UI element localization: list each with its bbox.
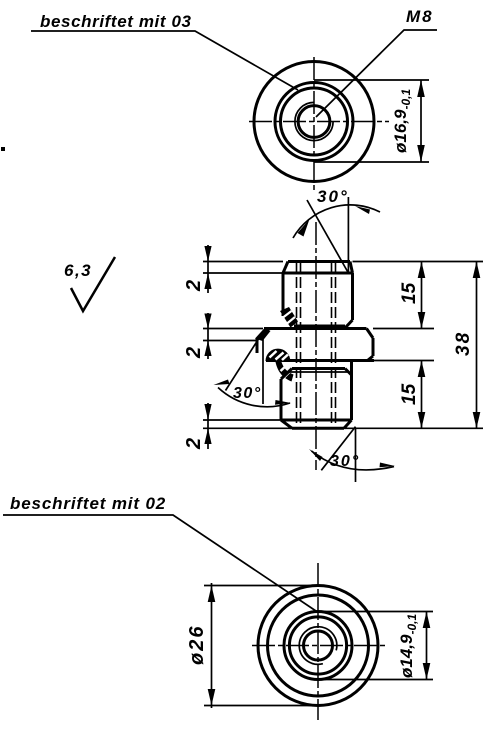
collar top-left chamfer (thick) <box>255 328 271 342</box>
top view horizontal centerline <box>249 121 389 123</box>
blob below collar left: dark cap <box>266 349 291 361</box>
phi16,9 arrow up <box>417 80 425 97</box>
angle 30 bottom arc arrow right <box>380 463 396 468</box>
leader M8 line <box>316 30 437 117</box>
angle 30 bottom arc <box>312 451 395 470</box>
blob lower tail <box>276 362 294 382</box>
bottom section right edge <box>350 375 353 420</box>
bottom view chamfer circle <box>289 617 346 674</box>
extension line top face left <box>203 261 283 263</box>
angle 30 top extension vertical <box>347 197 349 273</box>
phi26 extension line top <box>204 585 318 587</box>
bottom section top-right mini chamfer <box>345 369 352 376</box>
hidden line core right <box>331 262 333 428</box>
svg-text:M8: M8 <box>406 7 434 26</box>
extension line collar top right <box>373 328 434 330</box>
dim 2 no.1 arrows <box>204 246 211 262</box>
bottom section chamfer line bottom <box>281 419 352 422</box>
phi16,9 dimension line <box>420 80 422 162</box>
bottom section bottom face <box>292 427 344 430</box>
extension line collar top left <box>203 328 263 330</box>
angle 30 middle arc arrow left <box>214 380 230 386</box>
blob cap white slashes <box>270 351 289 360</box>
hidden line thread left <box>296 262 298 428</box>
svg-text:30°: 30° <box>317 187 349 206</box>
angle 30 middle vertical line <box>262 332 264 404</box>
top view thread arc M8 (3/4 circle) <box>295 102 333 140</box>
collar left edge <box>256 339 259 354</box>
collar bottom-right chamfer <box>368 356 374 361</box>
angle 30 middle diagonal <box>226 332 264 391</box>
svg-text:38: 38 <box>453 331 474 356</box>
phi26 arrows <box>208 586 216 603</box>
phi14,9 arrows <box>423 612 431 629</box>
top section top-left chamfer <box>283 262 288 274</box>
top section bottom-right chamfer <box>345 320 353 328</box>
extension line collar bottom right <box>374 360 434 362</box>
hidden line thread right <box>335 262 337 428</box>
leader beschriftet mit 03 line <box>31 31 298 90</box>
surface finish checkmark <box>71 257 115 311</box>
top section left edge <box>282 273 285 316</box>
dim 38 arrows <box>473 262 481 279</box>
angle 30 bottom diagonal <box>321 427 355 471</box>
angle 30 middle arc <box>218 388 290 407</box>
phi14,9 dimension line <box>426 612 428 680</box>
dim 38 line <box>476 262 478 429</box>
svg-text:ø26: ø26 <box>186 625 208 665</box>
extension line bottom chamfer left <box>203 419 281 421</box>
bottom view vertical centerline <box>317 563 319 720</box>
top section bottom-left chamfer (thick, thread runout) <box>280 307 298 328</box>
collar top-right chamfer <box>367 329 374 339</box>
svg-text:beschriftet mit 02: beschriftet mit 02 <box>10 494 166 513</box>
long bottom extension line <box>203 427 483 429</box>
svg-text:6,3: 6,3 <box>64 261 92 280</box>
collar right edge <box>372 338 375 356</box>
side view centerline <box>315 222 317 470</box>
svg-text:2: 2 <box>183 438 205 450</box>
hidden line core left <box>300 262 302 428</box>
collar bottom face <box>266 359 374 362</box>
runout white slashes <box>283 311 295 324</box>
angle 30 top arc <box>293 205 380 238</box>
top view circle phi16,9 <box>275 83 353 161</box>
dim 15 bottom line <box>421 361 423 429</box>
extension line chamfer left <box>203 272 283 274</box>
angle 30 top arc arrow right <box>355 206 370 214</box>
phi16,9 extension line top <box>314 79 429 81</box>
top view chamfer circle <box>281 88 348 155</box>
angle 30 top arc arrow left <box>298 219 310 237</box>
bottom section chamfer line top <box>289 371 349 373</box>
svg-text:15: 15 <box>399 383 420 405</box>
bottom view collar chamfer circle <box>268 595 369 696</box>
bottom section top-left chamfer <box>281 369 292 380</box>
collar top face <box>264 327 367 330</box>
phi14,9 extension line top <box>320 611 433 613</box>
extension line collar chamfer left <box>203 340 256 342</box>
phi26 dimension line <box>211 583 213 708</box>
svg-text:2: 2 <box>183 347 205 359</box>
dim 2 no.1 line <box>207 245 209 293</box>
angle 30 top chamfer extension diagonal <box>307 200 348 273</box>
bottom view circle phi14,9 <box>284 612 352 680</box>
phi14,9 extension line bottom <box>320 679 433 681</box>
svg-text:30°: 30° <box>330 453 360 470</box>
dim 2 no.2 line <box>207 313 209 359</box>
phi16,9 arrow down <box>417 145 425 162</box>
blob tail white slashes <box>281 365 291 378</box>
neck line above collar <box>294 325 345 328</box>
top section chamfer line <box>283 272 353 275</box>
svg-text:2: 2 <box>183 280 205 292</box>
bottom section bottom-right chamfer <box>344 420 352 428</box>
svg-text:30°: 30° <box>233 385 262 402</box>
bottom view core circle <box>304 631 333 660</box>
top view outer circle (collar phi26) <box>254 62 374 182</box>
dim 15 top arrows <box>418 262 426 279</box>
angle 30 middle arc arrow right <box>275 400 291 405</box>
bottom view thread arc (3/4 circle) <box>299 627 337 665</box>
phi26 extension line bottom <box>204 705 318 707</box>
phi16,9 extension line bottom <box>314 161 429 163</box>
top view vertical centerline <box>313 57 315 193</box>
dim 2 no.3 line <box>207 403 209 449</box>
dim 2 no.2 arrows <box>204 314 211 329</box>
bottom view outer circle <box>258 586 378 706</box>
bottom view horizontal centerline <box>252 645 386 647</box>
dim 15 top line <box>421 262 423 329</box>
bottom section top face <box>292 367 345 370</box>
speck at left edge <box>1 147 5 151</box>
bottom section bottom-left chamfer <box>281 420 292 428</box>
top view core hole circle <box>298 106 330 138</box>
bottom section left edge <box>280 379 283 420</box>
top section top face <box>288 260 350 263</box>
extension line top face right <box>353 261 484 263</box>
dim 15 bottom arrows <box>418 361 426 378</box>
angle 30 bottom vertical line <box>355 428 357 482</box>
svg-text:beschriftet mit 03: beschriftet mit 03 <box>40 12 192 31</box>
svg-text:15: 15 <box>399 282 420 304</box>
leader beschriftet mit 02 line <box>3 515 316 611</box>
top section top-right chamfer <box>350 262 353 274</box>
angle 30 bottom arc arrow left <box>309 449 323 461</box>
dim 2 no.3 arrows <box>204 404 211 420</box>
bottom section neck right edge <box>350 361 353 376</box>
top section right edge <box>351 273 354 320</box>
